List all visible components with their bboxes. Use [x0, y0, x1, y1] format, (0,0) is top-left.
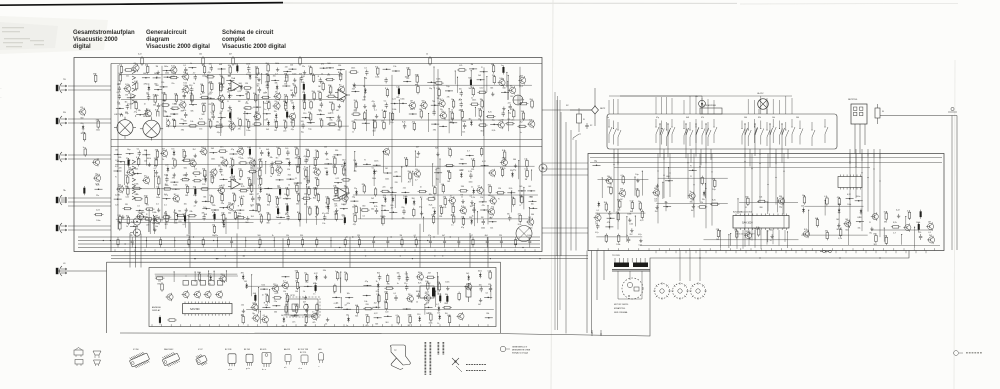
mains lead pair — [948, 107, 957, 250]
svg-text:120: 120 — [396, 87, 399, 89]
svg-text:0,1: 0,1 — [621, 175, 624, 177]
wire — [905, 216, 906, 227]
wire — [124, 161, 125, 185]
resistor R50 — [200, 84, 204, 96]
svg-text:4k7: 4k7 — [428, 273, 431, 275]
resistor R427 — [380, 187, 390, 199]
svg-text:390: 390 — [365, 315, 368, 317]
node J8 — [188, 63, 196, 69]
svg-text:6k8: 6k8 — [686, 117, 689, 119]
capacitor C557 — [918, 232, 922, 240]
svg-text:1n: 1n — [501, 65, 503, 67]
resistor R213 — [450, 111, 454, 123]
svg-text:120: 120 — [286, 213, 289, 215]
svg-text:3k3: 3k3 — [385, 322, 388, 324]
wire — [457, 77, 458, 93]
resistor R100 — [243, 103, 253, 109]
svg-text:47k: 47k — [459, 65, 462, 67]
capacitor C166 — [501, 65, 505, 74]
node J228 — [449, 118, 457, 124]
resistor R222 — [372, 120, 376, 132]
resistor R380 — [144, 214, 154, 226]
ground — [336, 110, 340, 122]
resistor R338 — [333, 186, 337, 198]
svg-text:0,1: 0,1 — [364, 68, 367, 70]
node J226 — [431, 123, 439, 131]
node J602 — [332, 293, 340, 305]
svg-text:47μ: 47μ — [133, 63, 136, 65]
svg-text:22n: 22n — [171, 83, 174, 85]
top edge res E — [426, 54, 431, 66]
connector BU1 — [56, 79, 67, 93]
resistor R162 — [457, 65, 467, 71]
capacitor C466 — [471, 205, 475, 217]
capacitor C489 — [83, 186, 85, 195]
ic U10 — [733, 214, 789, 231]
node J343 — [163, 194, 171, 206]
resistor R205 — [351, 109, 361, 121]
node J604 — [363, 295, 371, 303]
ground — [304, 304, 308, 316]
transistor T236 — [527, 119, 535, 128]
resistor R297 — [333, 166, 337, 176]
resistor R548 — [884, 211, 888, 223]
resistor R389 — [266, 212, 270, 224]
svg-text:220: 220 — [918, 232, 921, 234]
diode D54 — [239, 83, 243, 91]
svg-text:560: 560 — [153, 105, 156, 107]
svg-text:0,22: 0,22 — [392, 99, 396, 101]
wire — [130, 94, 131, 109]
svg-text:GEMESSEN 20 V: GEMESSEN 20 V — [512, 347, 528, 349]
ground — [435, 147, 439, 156]
svg-text:120: 120 — [287, 169, 290, 171]
svg-text:2k2: 2k2 — [293, 85, 296, 87]
resistor R51 — [209, 82, 213, 94]
netz feed wire — [542, 109, 592, 111]
svg-text:10μ: 10μ — [429, 88, 432, 90]
svg-text:4k7: 4k7 — [253, 293, 256, 295]
resistor R525 — [710, 199, 720, 205]
svg-text:10μ: 10μ — [352, 196, 355, 198]
node J450 — [479, 197, 487, 203]
wire — [163, 100, 164, 123]
svg-text:33k: 33k — [189, 211, 192, 213]
transistor T449 — [448, 196, 456, 205]
resistor R534 — [824, 196, 828, 206]
title english — [146, 30, 210, 50]
resistor R155 — [337, 119, 341, 131]
svg-text:10μ: 10μ — [212, 225, 215, 227]
svg-text:2k2: 2k2 — [287, 159, 290, 161]
svg-text:82k: 82k — [341, 166, 344, 168]
capacitor C418 — [459, 170, 463, 178]
svg-text:1n: 1n — [270, 176, 272, 178]
resistor R452 — [511, 197, 515, 207]
svg-text:47μ: 47μ — [212, 212, 215, 214]
resistor R447 — [426, 194, 436, 206]
svg-text:0,1: 0,1 — [194, 168, 197, 170]
capacitor C592 — [404, 283, 408, 291]
capacitor C76 — [227, 92, 231, 100]
capacitor C90 — [125, 102, 129, 114]
resistor R273 — [297, 157, 301, 169]
resistor R179 — [385, 88, 389, 98]
capacitor C476 — [481, 217, 485, 229]
diode D33 — [248, 72, 252, 80]
svg-text:8,2k: 8,2k — [468, 171, 472, 173]
wire — [477, 211, 478, 223]
wire — [471, 70, 472, 82]
ground — [324, 146, 328, 155]
svg-text:82k: 82k — [288, 174, 291, 176]
resistor R261 — [136, 157, 140, 167]
svg-text:100k: 100k — [266, 101, 270, 103]
svg-text:390: 390 — [247, 178, 250, 180]
resistor R456 — [360, 205, 370, 217]
svg-text:100n: 100n — [400, 99, 404, 101]
wire — [432, 163, 433, 186]
resistor R506 — [638, 201, 642, 211]
resistor R337 — [313, 187, 317, 199]
capacitor C120 — [228, 111, 232, 123]
svg-text:0,22: 0,22 — [374, 313, 378, 315]
svg-text:8,2k: 8,2k — [306, 187, 310, 189]
svg-text:8,2k: 8,2k — [429, 205, 433, 207]
svg-text:22n: 22n — [294, 183, 297, 185]
node J439 — [518, 186, 526, 198]
board interconnect wires — [130, 222, 488, 267]
wire — [185, 212, 186, 227]
ground — [419, 206, 423, 215]
resistor R216 — [486, 112, 496, 118]
control board bus — [590, 158, 942, 246]
resistor R585 — [295, 281, 299, 293]
wire — [519, 76, 520, 88]
svg-text:15k: 15k — [282, 325, 285, 327]
diode D282 — [165, 165, 169, 177]
transistor T576 — [416, 272, 424, 284]
node J627 — [403, 308, 411, 310]
capacitor C61 — [301, 82, 305, 91]
transistor T28 — [181, 72, 189, 84]
svg-text:4,7: 4,7 — [436, 304, 439, 306]
resistor R85 — [312, 91, 316, 101]
resistor R4 — [145, 65, 149, 75]
svg-text:220: 220 — [395, 182, 398, 184]
transformer taps — [615, 258, 645, 263]
svg-text:47k: 47k — [245, 94, 248, 96]
transistor T265 — [189, 159, 197, 168]
wire — [401, 167, 402, 183]
legend plug P4 — [94, 360, 101, 366]
transistor T242 — [160, 149, 168, 161]
wire — [353, 84, 532, 86]
svg-text:47k: 47k — [321, 63, 324, 65]
resistor R600 — [272, 293, 282, 299]
scan top-left ghost patch — [0, 16, 108, 54]
interconnect bus — [107, 255, 589, 262]
resistor R639 — [365, 315, 369, 327]
svg-text:560: 560 — [460, 110, 463, 112]
svg-text:2k2: 2k2 — [172, 168, 175, 170]
connector BU2 — [56, 112, 67, 126]
transistor T595 — [464, 283, 472, 291]
transistor T344 — [172, 194, 179, 203]
wire — [119, 74, 343, 76]
capacitor C333 — [278, 187, 282, 199]
title german — [73, 30, 135, 50]
svg-text:1n: 1n — [690, 191, 692, 193]
transistor T547 — [871, 212, 879, 220]
svg-text:15k: 15k — [480, 197, 483, 199]
ground — [478, 298, 482, 306]
svg-text:4,7: 4,7 — [221, 215, 224, 217]
svg-text:10k: 10k — [228, 65, 231, 67]
resistor R631 — [241, 315, 245, 325]
resistor R410 — [524, 159, 528, 169]
svg-text:220: 220 — [303, 113, 306, 115]
svg-text:33k: 33k — [304, 325, 307, 327]
svg-text:47k: 47k — [607, 222, 610, 224]
ground — [292, 73, 296, 85]
svg-text:100k: 100k — [302, 101, 306, 103]
node J20 — [320, 63, 328, 75]
svg-text:1k5: 1k5 — [146, 93, 149, 95]
svg-text:1M: 1M — [321, 82, 324, 84]
node J603 — [345, 293, 353, 305]
node J454 — [529, 197, 537, 203]
svg-text:1M: 1M — [290, 90, 293, 92]
svg-text:ERSATZTEIL: ERSATZTEIL — [614, 307, 625, 310]
svg-text:1M: 1M — [239, 179, 242, 181]
resistor R19 — [308, 66, 312, 76]
svg-text:560: 560 — [263, 93, 266, 95]
svg-text:0,1: 0,1 — [219, 113, 222, 115]
node J240 — [142, 150, 150, 162]
wire — [656, 202, 728, 204]
svg-text:8,2k: 8,2k — [155, 110, 159, 112]
resistor R107 — [308, 100, 312, 110]
node J416 — [434, 168, 442, 180]
svg-text:390: 390 — [432, 207, 435, 209]
resistor R414 — [408, 171, 412, 183]
svg-text:4,7: 4,7 — [415, 180, 418, 182]
display ic2 — [420, 286, 435, 298]
svg-text:10k: 10k — [295, 281, 298, 283]
resistor R329 — [239, 186, 249, 198]
resistor R591 — [384, 283, 394, 289]
node J523 — [663, 202, 671, 208]
resistor R220 — [352, 121, 356, 133]
resistor R514 — [616, 234, 620, 246]
display label — [152, 306, 161, 312]
wire — [119, 222, 254, 224]
svg-text:3k3: 3k3 — [220, 101, 223, 103]
wire — [483, 111, 484, 136]
svg-text:TR 220V: TR 220V — [612, 255, 621, 257]
resistor R472 — [431, 215, 435, 225]
svg-text:560: 560 — [283, 120, 286, 122]
resistor R290 — [257, 168, 261, 180]
left margin mark — [1, 87, 2, 99]
wire — [434, 101, 435, 113]
svg-text:4,7: 4,7 — [164, 194, 167, 196]
ic U10 pin wires — [737, 230, 785, 249]
node J582 — [260, 284, 268, 296]
capacitor C587 — [313, 283, 317, 295]
resistor R370 — [256, 203, 260, 213]
node J152 — [307, 118, 315, 130]
resistor R573 — [386, 274, 389, 284]
svg-text:33k: 33k — [387, 283, 390, 285]
diode D540 — [859, 209, 863, 220]
svg-text:1n: 1n — [303, 168, 305, 170]
transistor T300 — [142, 176, 150, 185]
resistor R642 — [396, 315, 400, 325]
node J543 — [856, 217, 864, 229]
capacitor C445 — [403, 196, 407, 205]
legend plug P2 — [75, 360, 83, 367]
svg-text:15k: 15k — [183, 175, 186, 177]
resistor R311 — [258, 176, 262, 188]
svg-text:390: 390 — [93, 74, 96, 76]
svg-text:8,2k: 8,2k — [461, 206, 465, 208]
resistor R12 — [228, 65, 232, 77]
resistor R86 — [318, 91, 322, 101]
svg-text:22n: 22n — [189, 93, 192, 95]
diode D446 — [412, 198, 416, 206]
svg-text:0,22: 0,22 — [480, 88, 484, 90]
resistor R556 — [884, 236, 888, 246]
svg-text:ANZEIGE: ANZEIGE — [152, 306, 161, 309]
svg-text:X2: X2 — [590, 125, 592, 127]
ground — [184, 168, 188, 180]
diode D475 — [469, 217, 473, 225]
svg-text:g d s: g d s — [246, 368, 250, 370]
node J121 — [243, 109, 251, 121]
svg-text:33k: 33k — [275, 83, 278, 85]
diode D45 — [146, 84, 150, 96]
capacitor C108 — [319, 100, 323, 112]
node J628 — [425, 303, 433, 315]
svg-text:1k5: 1k5 — [241, 315, 244, 317]
svg-text:560: 560 — [422, 101, 425, 103]
wire — [808, 210, 809, 235]
svg-text:4k7: 4k7 — [381, 121, 384, 123]
svg-text:100k: 100k — [616, 244, 620, 246]
resistor R110 — [120, 113, 123, 123]
transistor T381 — [153, 216, 160, 228]
diode D434 — [471, 187, 475, 199]
svg-text:10μ: 10μ — [446, 86, 449, 88]
svg-text:2k2: 2k2 — [312, 91, 315, 93]
capacitor C385 — [202, 213, 206, 221]
svg-text:digital: digital — [73, 44, 91, 50]
svg-text:1n: 1n — [313, 294, 315, 296]
svg-text:100k: 100k — [147, 158, 151, 160]
diode D652 — [208, 273, 212, 285]
node J402 — [363, 160, 371, 166]
svg-text:0,22: 0,22 — [238, 147, 242, 149]
ic U11 — [838, 175, 862, 190]
node J112 — [136, 110, 144, 122]
resistor R186 — [477, 88, 487, 94]
resistor R497 — [233, 211, 237, 221]
resistor R140 — [197, 118, 207, 130]
wire — [531, 169, 532, 180]
node J21 — [326, 63, 334, 75]
diode D646 — [437, 312, 441, 324]
capacitor C457 — [374, 206, 378, 214]
svg-text:15k: 15k — [257, 168, 260, 170]
wire — [767, 230, 768, 242]
transistor T360 — [341, 193, 349, 205]
resistor R613 — [458, 292, 461, 302]
svg-text:47k: 47k — [183, 110, 186, 112]
svg-text:0,22: 0,22 — [336, 178, 340, 180]
resistor R577 — [426, 273, 436, 285]
svg-text:390: 390 — [172, 177, 175, 179]
svg-text:82k: 82k — [425, 293, 428, 295]
resistor R400 — [502, 150, 506, 162]
svg-text:100n: 100n — [96, 130, 100, 132]
svg-text:560: 560 — [295, 271, 298, 273]
svg-text:4,7: 4,7 — [471, 235, 474, 237]
svg-text:100k: 100k — [403, 196, 407, 198]
svg-text:Visacustic 2000 digital: Visacustic 2000 digital — [222, 44, 286, 50]
ic U10 labels — [733, 211, 754, 236]
svg-text:15k: 15k — [393, 66, 396, 68]
transistor T188 — [508, 86, 516, 98]
node J74 — [207, 94, 215, 106]
wire — [755, 228, 756, 240]
node J129 — [317, 110, 325, 116]
svg-text:AA 113: AA 113 — [284, 348, 290, 351]
wire — [261, 73, 262, 84]
svg-text:47μ: 47μ — [372, 101, 375, 103]
diode D629 — [436, 304, 440, 312]
svg-text:82k: 82k — [383, 195, 386, 197]
svg-text:8,2k: 8,2k — [96, 184, 100, 186]
svg-text:100k: 100k — [342, 170, 346, 172]
svg-text:100k: 100k — [296, 193, 300, 195]
transistor T488 — [93, 173, 101, 185]
connector BU4 — [56, 189, 67, 205]
svg-text:8,2k: 8,2k — [211, 112, 215, 114]
svg-text:1k: 1k — [222, 158, 224, 160]
svg-text:a k: a k — [284, 367, 286, 369]
svg-text:33k: 33k — [323, 270, 326, 272]
svg-text:100n: 100n — [374, 160, 378, 162]
capacitor C251 — [259, 148, 263, 160]
capacitor C157 — [364, 68, 368, 80]
svg-text:33k: 33k — [338, 75, 341, 77]
svg-text:MOTOR ANTRIEB: MOTOR ANTRIEB — [701, 104, 717, 107]
bottom right ticks — [591, 330, 601, 336]
resistor R80 — [261, 93, 271, 105]
capacitor C125 — [285, 110, 289, 119]
ground — [241, 304, 245, 316]
transistor T420 — [488, 169, 496, 177]
svg-text:0,1: 0,1 — [274, 120, 277, 122]
svg-text:120: 120 — [319, 118, 322, 120]
svg-text:47μ: 47μ — [353, 224, 356, 226]
svg-text:4,7: 4,7 — [345, 304, 348, 306]
wire — [412, 171, 413, 186]
wire — [506, 72, 507, 87]
svg-text:10μ: 10μ — [451, 99, 454, 101]
